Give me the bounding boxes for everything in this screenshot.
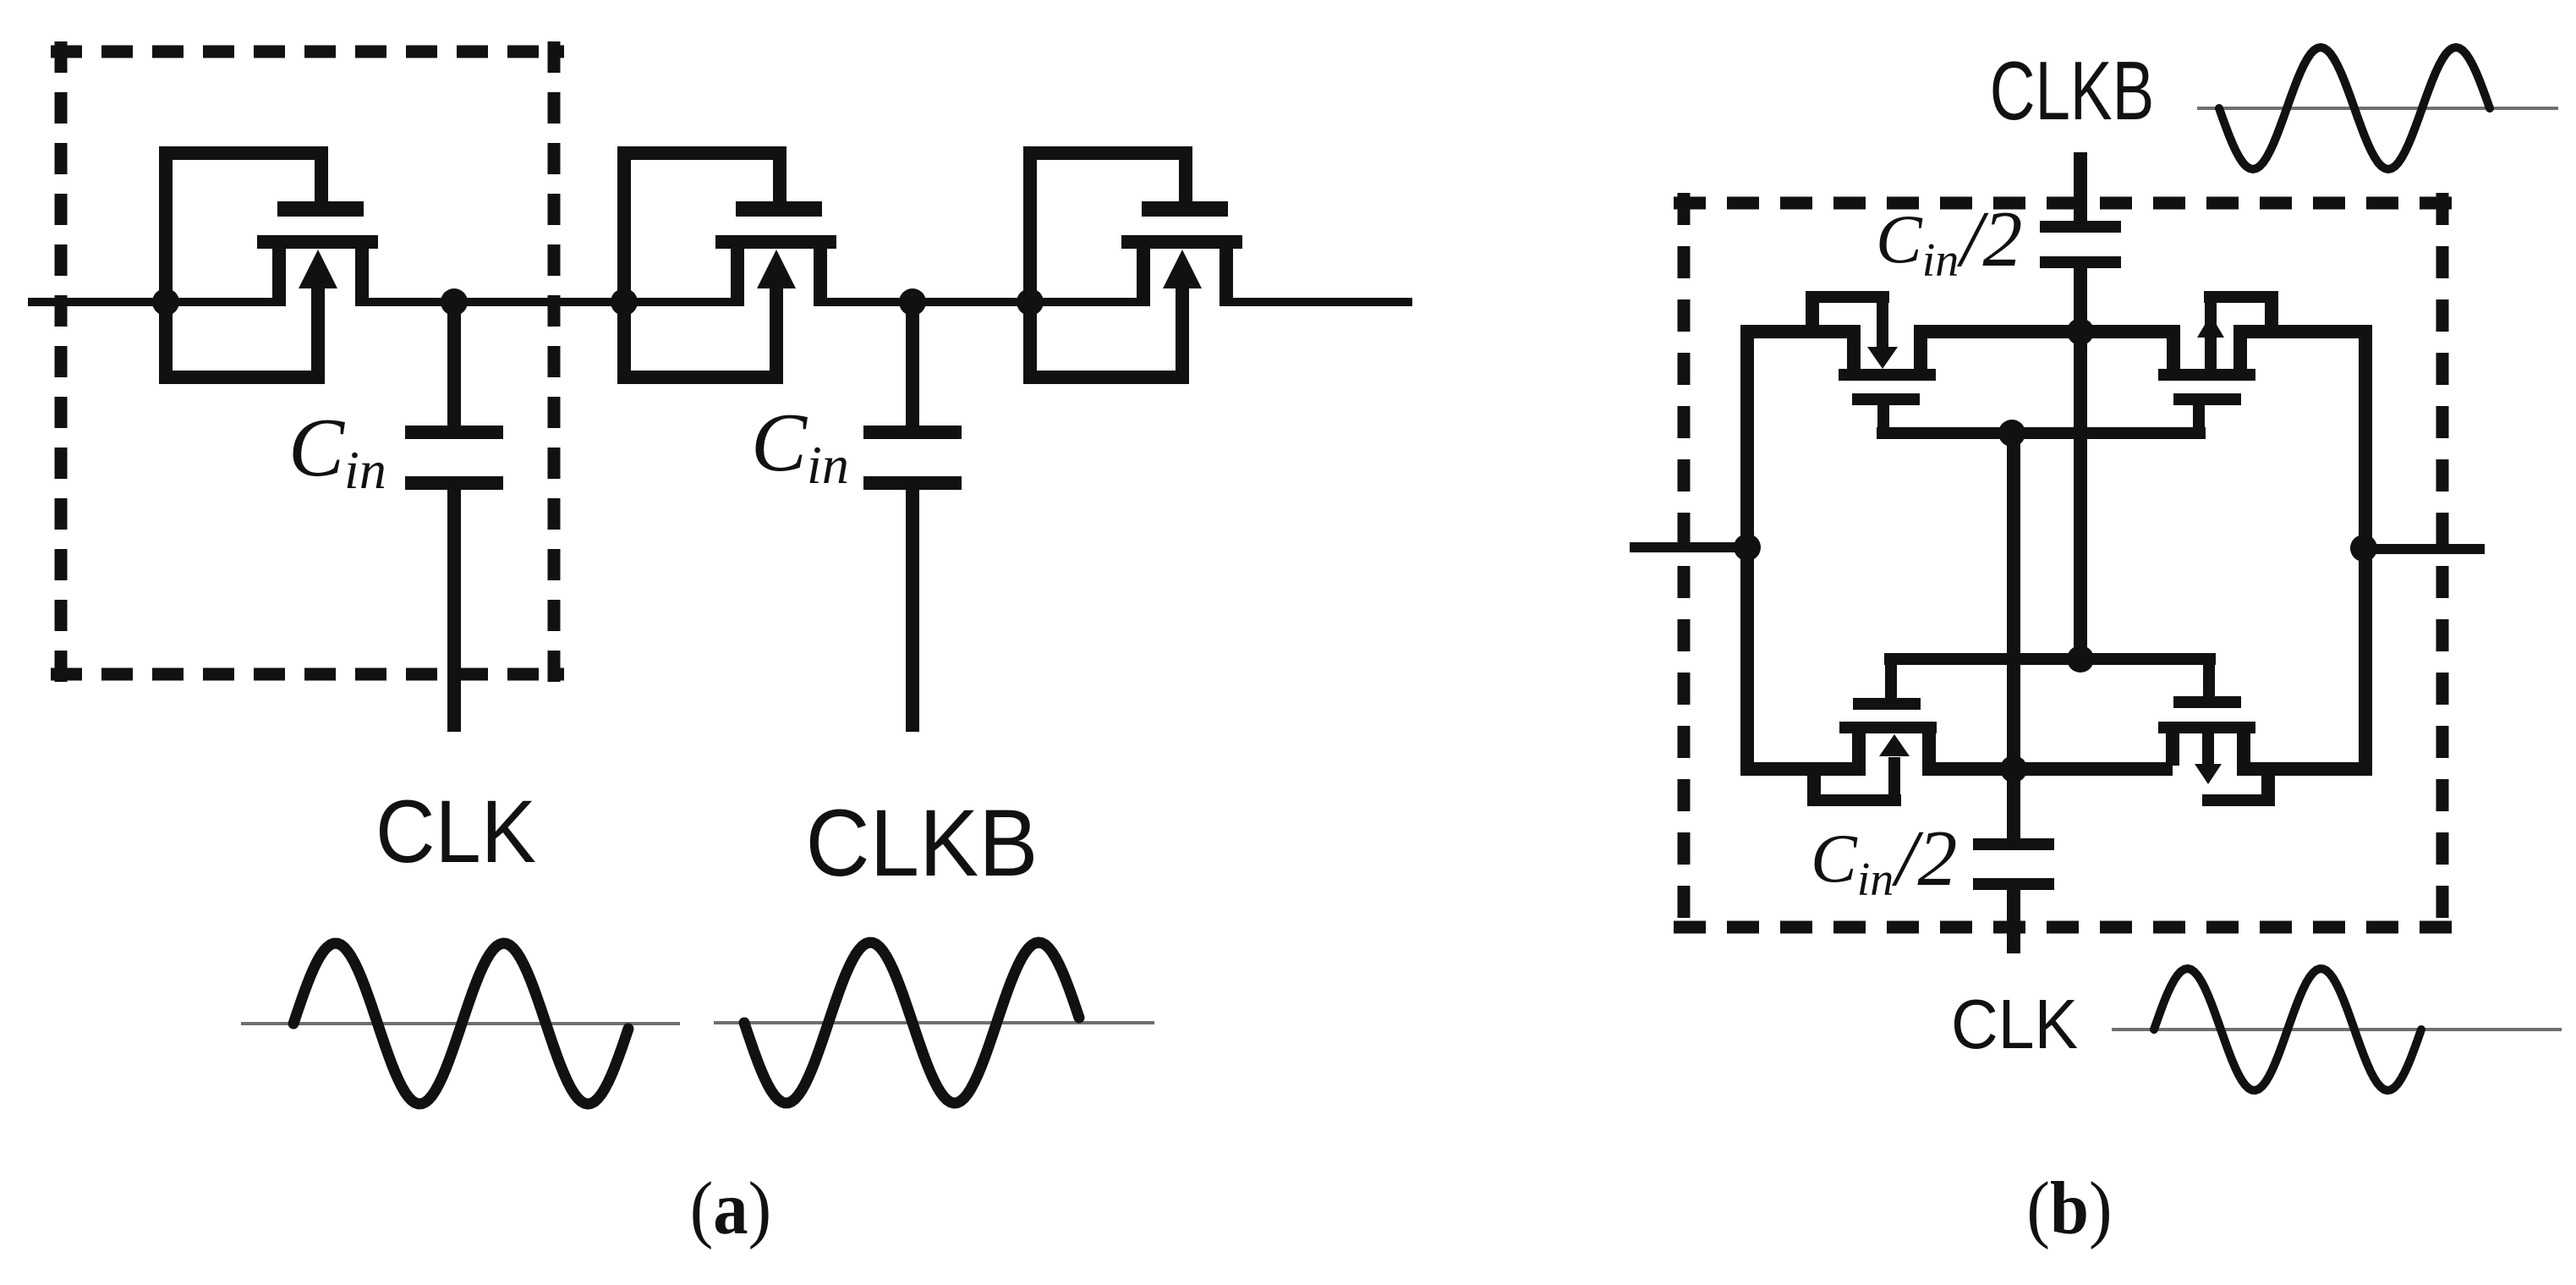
capacitor C3 (Cin/2 top) <box>2040 221 2121 332</box>
wire: rail from M6 drain to M7 source <box>820 298 1143 306</box>
node B6 (bottom rail / C4 junction) <box>2000 755 2027 783</box>
wire: output stub (b) <box>2365 544 2485 554</box>
dashed box around (b) doubler cell <box>1674 193 2453 937</box>
svg-text:CLKB: CLKB <box>805 791 1038 897</box>
wire: top source rail (left part) <box>1740 325 1861 338</box>
node B1 (top rail / C3 junction) <box>2067 318 2094 345</box>
wire: top source rail (right part) <box>2233 325 2372 338</box>
CLKB sine baseline (a) <box>714 1021 1154 1024</box>
node B2 (upper gate rail / cross wire) <box>1998 420 2025 447</box>
capacitor C4 (Cin/2 bottom) <box>1973 776 2054 953</box>
CLK sine wave (b) <box>2154 969 2421 1090</box>
wire: output rail from M7 drain <box>1226 298 1412 306</box>
svg-text:CLKB: CLKB <box>1990 45 2155 137</box>
wire: right outer rail <box>2359 325 2372 776</box>
CLKB sine baseline (b) <box>2197 107 2558 110</box>
transistor M1 (b top-left) <box>1806 291 1936 433</box>
wire: lower gate rail (cross-coupling) <box>1884 653 2216 665</box>
wire: bottom source rail (right part) <box>2237 762 2372 776</box>
node B4 (input node) <box>1734 534 1761 561</box>
capacitor C1 (Cin, stage 1) <box>405 306 503 732</box>
wire: input stub (b) <box>1630 542 1747 552</box>
CLK sine baseline (b) <box>2112 1028 2562 1031</box>
CLK sine wave (a) <box>293 943 628 1104</box>
wire: rail from M5 drain to M6 source <box>362 298 737 306</box>
svg-text:CLK: CLK <box>375 783 536 881</box>
CLK sine baseline (a) <box>241 1022 680 1025</box>
transistor M3 (b bottom-left) <box>1807 665 1937 806</box>
wire: bottom source rail (middle) <box>1922 762 2173 776</box>
wire: bottom source rail (left part) <box>1747 762 1866 776</box>
node B5 (output node) <box>2350 535 2377 562</box>
dashed box around first stage of (a) <box>51 41 564 684</box>
node A5 (gate/body tie, stage 3) <box>1017 288 1044 316</box>
transistor M4 (b bottom-right) <box>2158 665 2275 806</box>
wire: CLKB feed into top capacitor <box>2074 152 2087 221</box>
svg-text:CLK: CLK <box>1951 984 2078 1063</box>
svg-text:(b): (b) <box>2026 1166 2112 1249</box>
node A1 (gate/body tie, stage 1) <box>152 288 179 316</box>
wire: upper gate rail (cross-coupling) <box>1877 427 2206 439</box>
node A2 (capacitor C1 tap) <box>441 288 468 316</box>
capacitor C2 (Cin, stage 2) <box>863 306 962 732</box>
wire: top source rail (middle) <box>1914 325 2180 338</box>
CLKB sine wave (a) <box>744 942 1079 1103</box>
CLKB sine wave (b) <box>2219 47 2490 169</box>
wire: cross wire from node B1 down to lower gate rail <box>2074 332 2087 665</box>
transistor M5 (a stage 1) <box>159 146 378 384</box>
svg-text:(a): (a) <box>690 1166 772 1249</box>
wire: cross wire from node B2 down to bottom rail <box>2007 433 2020 776</box>
transistor M7 (a stage 3) <box>1023 146 1242 384</box>
node A4 (capacitor C2 tap) <box>899 288 926 316</box>
transistor M2 (b top-right) <box>2158 291 2278 433</box>
wire: input rail segment into node A1 <box>28 298 279 306</box>
transistor M6 (a stage 2) <box>617 146 836 384</box>
node A3 (gate/body tie, stage 2) <box>611 288 638 316</box>
wire: left outer rail <box>1740 325 1754 776</box>
node B3 (lower gate rail / cross wire) <box>2067 645 2094 673</box>
